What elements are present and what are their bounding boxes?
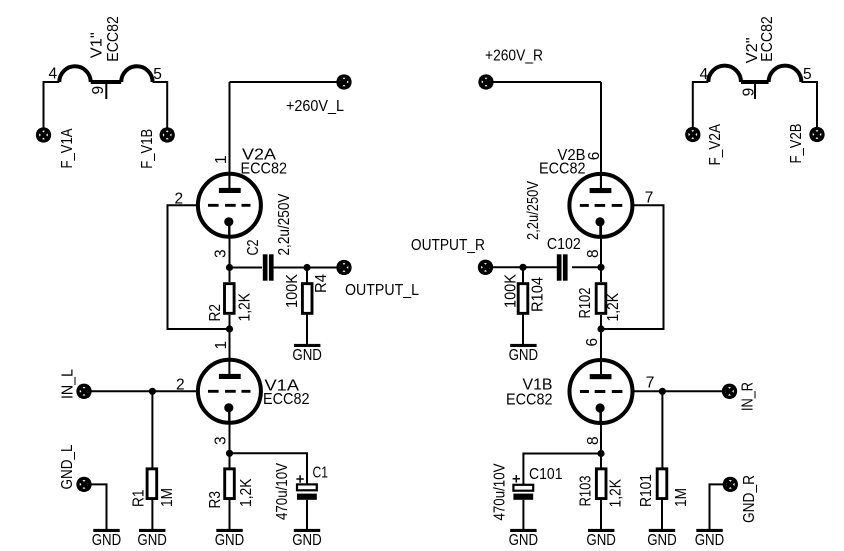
svg-text:ECC82: ECC82 [759,16,776,62]
svg-text:C102: C102 [547,236,581,253]
svg-text:4: 4 [700,66,709,83]
C101 polarity plus [513,475,520,482]
wire V1B grid to IN_R [634,390,730,392]
svg-text:R102: R102 [577,288,594,319]
svg-text:9: 9 [741,88,758,97]
terminal F_V1B [161,129,173,141]
svg-text:7: 7 [645,189,654,206]
wire R103 bottom lead [600,500,602,530]
svg-text:3: 3 [213,249,230,258]
capacitor C2 [263,254,268,280]
svg-text:F_V1A: F_V1A [59,128,76,169]
resistor R3 body [225,469,235,499]
svg-text:OUTPUT_L: OUTPUT_L [345,282,419,299]
wire R104 leads [522,267,524,344]
svg-text:GND_R: GND_R [741,475,758,523]
wire +260V_R rail [486,81,601,83]
svg-text:ECC82: ECC82 [539,161,586,178]
svg-text:OUTPUT_R: OUTPUT_R [411,237,485,254]
svg-text:R2: R2 [207,304,224,322]
junction V1B cathode node [597,450,604,457]
svg-text:5: 5 [803,66,812,83]
svg-text:2,2u/250V: 2,2u/250V [525,180,542,240]
terminal +260V_R [480,76,492,88]
ground GND below R4 [292,344,322,364]
junction V2A cathode node [226,264,233,271]
ground GND below R3 [215,529,245,549]
svg-text:470u/10V: 470u/10V [274,462,291,520]
wire GND_R wire [710,484,731,529]
resistor R103 body [596,469,606,499]
wire IN_L to V1A grid [84,390,197,392]
svg-text:470u/10V: 470u/10V [491,463,508,521]
triode V1B [570,359,633,425]
svg-text:ECC82: ECC82 [263,391,310,408]
heater V2 pin 9 stub [754,82,756,99]
svg-text:5: 5 [153,66,162,83]
wire +260V_L rail [230,81,345,83]
triode V1A [198,358,261,424]
ground GND below C101 [509,529,539,549]
svg-text:GND_L: GND_L [59,444,76,489]
wire R101 top lead [661,391,663,468]
wire R1 bottom lead [151,500,153,530]
capacitor C102 [557,254,562,280]
terminal OUTPUT_L [338,262,350,274]
svg-text:6: 6 [584,338,601,347]
svg-text:C2: C2 [245,240,262,256]
svg-text:100K: 100K [284,273,301,308]
svg-text:R4: R4 [313,274,330,293]
svg-text:1M: 1M [673,488,690,507]
junction IN_R / R101 junction [659,388,666,395]
svg-text:2: 2 [176,377,185,394]
svg-text:8: 8 [585,249,602,258]
junction V1B plate node [597,325,604,332]
svg-text:ECC82: ECC82 [241,161,288,178]
terminal GND_R [724,478,736,490]
svg-text:ECC82: ECC82 [105,16,122,62]
svg-text:V1": V1" [89,32,106,58]
triode V2A [198,172,261,238]
wire V1B cathode to R103 [600,407,602,468]
junction R104 top node [519,264,526,271]
svg-text:1,2K: 1,2K [605,292,622,321]
wire wire cathode node to C2 [230,267,263,269]
ground GND below GND_L [92,529,122,549]
svg-text:R101: R101 [638,474,655,507]
ground GND below R104 [509,344,539,364]
svg-text:1,2K: 1,2K [237,292,254,321]
wire V2A grid to V1A plate [168,205,230,329]
svg-text:1,2K: 1,2K [608,478,625,507]
svg-text:1,2K: 1,2K [238,478,255,507]
heater V1 pin 9 stub [105,82,107,99]
resistor R101 body [657,469,667,499]
svg-text:F_V2A: F_V2A [707,123,724,165]
junction R4 top node [303,264,310,271]
svg-text:6: 6 [586,152,603,161]
svg-text:1: 1 [213,341,230,350]
svg-text:4: 4 [49,65,58,82]
terminal F_V1A [38,129,50,141]
resistor R102 body [596,284,606,314]
wire V2B cathode to R102 [600,221,602,282]
svg-text:IN_L: IN_L [60,369,77,399]
ground GND below R101 [647,529,677,549]
ground GND below GND_R [695,529,725,549]
wire R3 bottom lead [229,500,231,530]
junction V2B cathode node [597,264,604,271]
svg-text:2,2u/250V: 2,2u/250V [276,193,293,256]
wire wire cathode node to C102 [572,266,601,268]
terminal F_V2B [811,129,823,141]
svg-text:R103: R103 [578,476,595,507]
terminal IN_L [78,385,90,397]
resistor R2 body [225,284,235,314]
svg-text:1: 1 [213,155,230,164]
resistor R4 body [302,284,312,314]
ground GND below C1 [292,529,322,549]
svg-text:R1: R1 [131,490,148,508]
wire GND_L wire [84,484,107,529]
wire V2B plate lead [600,82,602,192]
svg-text:C101: C101 [529,466,563,483]
wire wire cathode node to C1 [230,453,308,485]
capacitor C1 (electrolytic) [297,484,317,490]
wire V2A plate lead [229,82,231,192]
svg-text:+260V_R: +260V_R [485,48,543,65]
svg-text:F_V1B: F_V1B [139,129,156,169]
wire C102 to OUTPUT_R [486,266,557,268]
terminal OUTPUT_R [480,261,492,273]
wire V1A cathode to R3 [229,407,231,468]
junction IN_L / R1 junction [149,388,156,395]
wire R102 to V1B plate [600,315,602,360]
junction V1A cathode node [226,450,233,457]
wire R4 leads [306,268,308,345]
terminal +260V_L [338,76,350,88]
junction V1A plate node [226,325,233,332]
resistor R104 body [518,284,528,314]
svg-text:IN_R: IN_R [740,382,757,411]
wire C1 bottom lead [306,500,308,529]
wire V2A cathode to R2 [229,221,231,282]
svg-text:3: 3 [213,436,230,445]
terminal F_V2A [687,129,699,141]
svg-text:R104: R104 [529,277,546,312]
svg-text:C1: C1 [313,465,329,482]
heater filament V1 (pins 4,9,5) [44,82,60,128]
svg-text:F_V2B: F_V2B [788,124,805,164]
svg-text:+260V_L: +260V_L [286,98,344,115]
resistor R1 body [147,469,157,499]
wire C2 to OUTPUT_L [274,267,344,269]
svg-text:9: 9 [90,86,107,95]
wire R1 top lead [151,391,153,468]
wire C101 bottom lead [522,500,524,529]
heater filament V2 (pins 4,9,5) [693,82,709,128]
svg-text:8: 8 [585,436,602,445]
triode V2B [569,172,632,238]
svg-text:1M: 1M [159,488,176,507]
svg-text:100K: 100K [502,273,519,308]
svg-text:R3: R3 [207,491,224,509]
ground GND below R1 [137,529,167,549]
wire V2B grid to V1B plate [601,205,664,329]
svg-text:ECC82: ECC82 [506,391,553,408]
wire wire cathode node to C101 [523,454,601,486]
svg-text:7: 7 [646,375,655,392]
capacitor C101 (electrolytic) [513,485,533,491]
C1 polarity plus [296,475,303,482]
terminal IN_R [724,385,736,397]
wire R101 bottom lead [661,500,663,530]
terminal GND_L [78,478,90,490]
ground GND below R103 [586,529,616,549]
wire R2 to V1A plate [229,315,231,360]
